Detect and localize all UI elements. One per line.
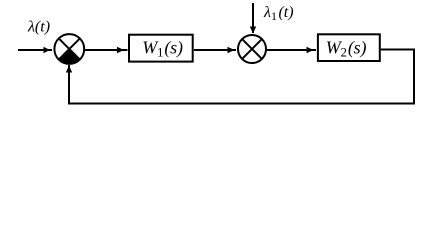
arrowhead into W1 xyxy=(117,47,124,53)
arrowhead into W2 xyxy=(307,47,314,53)
arrowhead into summing junction S2 xyxy=(228,47,235,53)
block W1 xyxy=(129,35,193,62)
wire feedback left vertical up to S1 xyxy=(68,65,70,105)
wire W2 output to right xyxy=(381,49,415,51)
arrowhead into S2 from top xyxy=(250,27,256,34)
arrowhead into S1 from bottom xyxy=(66,66,72,73)
wire input xyxy=(18,49,52,51)
wire S1 to W1 xyxy=(85,49,128,51)
wire W1 to S2 xyxy=(194,49,236,51)
summing junction S1 xyxy=(54,34,84,64)
svg-text:λ1(t): λ1(t) xyxy=(263,4,294,23)
arrowhead into summing junction S1 xyxy=(44,47,51,53)
svg-text:λ(t): λ(t) xyxy=(27,19,50,36)
summing junction S2 xyxy=(238,35,266,63)
block W2 xyxy=(318,34,380,61)
wire lambda1 down into S2 xyxy=(252,3,254,33)
wire S2 to W2 xyxy=(266,49,316,51)
wire feedback bottom horizontal xyxy=(68,103,415,105)
wire feedback right vertical xyxy=(413,49,415,105)
